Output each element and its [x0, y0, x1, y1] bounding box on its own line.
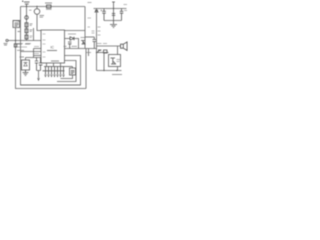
ground under box [23, 70, 29, 76]
label left1 [17, 43, 30, 45]
wire column x33.5 upper [33, 28, 35, 41]
component R6 [104, 50, 108, 53]
jack blob [15, 23, 19, 26]
component ring x26.5 [25, 16, 29, 20]
node dot rail-Q1 [36, 6, 37, 7]
capacitor C5 [85, 37, 96, 49]
diode D1 [70, 37, 74, 40]
label B1 [20, 56, 25, 58]
label left pins [17, 44, 39, 54]
label C8 [124, 5, 128, 11]
resistor R1 on top rail [45, 3, 52, 9]
label near x20 [18, 31, 21, 33]
wire caps bottom [37, 71, 41, 81]
wire pin line y48.5 left [34, 48, 42, 50]
resistor R7 on left bus [14, 44, 17, 47]
label bus ticks [88, 18, 95, 33]
wire pin line y51.5 left [21, 51, 42, 53]
wire left bus inner [16, 28, 87, 89]
label D1 [68, 33, 76, 35]
resistor R3 [25, 29, 28, 33]
component R5 [98, 50, 102, 53]
wire right bus x85 [84, 7, 86, 49]
box aux [70, 68, 76, 75]
connector header CN1 top bar [44, 67, 73, 77]
label under rail [86, 52, 91, 54]
wire stubs IC to header [47, 63, 61, 67]
IC U1 body [41, 30, 65, 63]
wire ground rail top right [104, 20, 122, 22]
wire drop below rail [88, 49, 90, 57]
wire drop x104 [103, 53, 105, 71]
top right rail [94, 8, 127, 10]
wire column x33.5 lower [33, 49, 35, 58]
capacitor C1 top-left [22, 1, 30, 7]
wire diode to x78 [74, 39, 79, 49]
wire pin line y55.5 left [34, 55, 42, 57]
label Q2 [81, 37, 86, 39]
wire bus right outer [85, 49, 87, 89]
wire left bus outer [21, 7, 81, 86]
capacitor Ca [35, 58, 38, 71]
label R2 [30, 24, 33, 26]
label IC pins inner [43, 34, 46, 57]
wire x96 bus [96, 12, 98, 71]
wire IC pin y38.5 [65, 38, 71, 40]
resistor R2 [25, 23, 28, 27]
resistor R4 [25, 35, 28, 39]
wire rail y48.5 [65, 48, 97, 50]
label R4 [30, 36, 33, 38]
label right mid [97, 43, 108, 45]
diode D2 top right [95, 9, 98, 13]
wire box to rail [117, 67, 119, 71]
ground top right [110, 21, 117, 28]
box right bottom [109, 55, 121, 67]
wire aux stub [72, 67, 74, 69]
node input terminal [6, 39, 8, 41]
label top [88, 2, 92, 4]
wire speaker drop [117, 46, 119, 55]
transistor Q2 [81, 41, 85, 45]
wire top rail left [21, 6, 86, 8]
svg-text:IC: IC [51, 46, 55, 50]
blob in aux box [71, 71, 75, 74]
wire column x26.5 [26, 7, 28, 41]
transistor Q1 circle [34, 9, 40, 15]
capacitor C6 [102, 9, 106, 21]
wire bottom right rail [97, 70, 122, 72]
wire IC pin y55.5 nest [21, 56, 81, 86]
speaker LS1 [121, 42, 128, 50]
node dot input cross [15, 40, 16, 41]
node dot [113, 8, 114, 9]
wire IC top to right bus [65, 30, 86, 32]
wire Q1 vertical [37, 7, 41, 31]
wire horizontal input line [8, 40, 41, 42]
label input [4, 44, 8, 46]
node dot mid [96, 52, 97, 53]
wire across header pins [43, 70, 65, 72]
label rail [64, 45, 78, 47]
label x96 pins [98, 27, 101, 35]
label header left [40, 64, 43, 66]
wire IC pin y60.5 nest [57, 61, 76, 82]
wire antenna stub [112, 2, 115, 21]
label R3 [30, 30, 33, 32]
plus C6 [101, 10, 103, 12]
wire cap row top [26, 58, 41, 61]
label small [29, 9, 32, 11]
node dot rail-cap [26, 6, 27, 7]
capacitor C4 [68, 42, 72, 49]
label Q1 [40, 16, 45, 18]
node dots right [103, 70, 104, 71]
wire bottom nest inner [61, 75, 73, 79]
label in box [117, 60, 121, 62]
capacitor C8 [120, 9, 124, 21]
label under box [112, 74, 122, 76]
jack J1 input box [13, 21, 21, 28]
box left bottom B1 [22, 60, 30, 70]
label CN1 [51, 60, 59, 62]
capacitor Cb [39, 58, 42, 71]
component in box [111, 58, 116, 64]
wire right mid rail [97, 52, 109, 54]
wire to speaker [97, 45, 121, 47]
capacitor C7 [112, 14, 116, 16]
diode in box [24, 63, 28, 67]
